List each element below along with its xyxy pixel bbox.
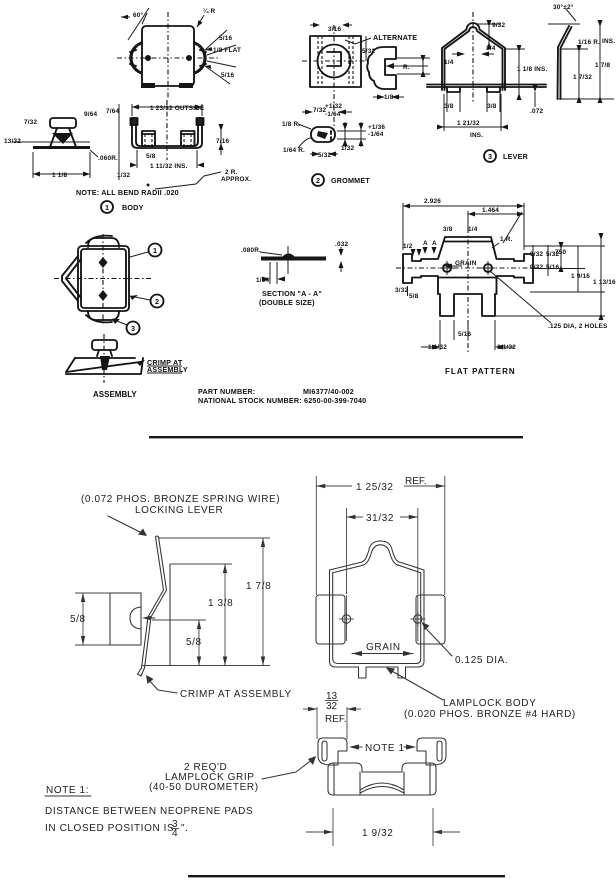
svg-text:5/8: 5/8 (409, 293, 419, 300)
svg-text:2: 2 (316, 176, 320, 185)
dim 1 9/32 (332, 808, 334, 846)
svg-text:32: 32 (326, 701, 338, 712)
dim 31/32 (346, 508, 348, 594)
svg-text:9/32: 9/32 (530, 251, 543, 258)
svg-text:13/32: 13/32 (4, 138, 21, 145)
svg-text:1/16 R.: 1/16 R. (578, 39, 600, 46)
svg-text:1/2: 1/2 (403, 243, 413, 250)
separator line 2 (188, 875, 505, 877)
svg-text:1 3/8: 1 3/8 (208, 598, 233, 609)
svg-text:1/8 R.: 1/8 R. (282, 121, 300, 128)
lever front : right dim 1 1/8 INS (505, 48, 525, 50)
flat pattern : outline (403, 237, 533, 316)
assembly top view : centerlines (54, 278, 152, 280)
body front view : outside dim (131, 104, 133, 116)
svg-text:NOTE 1: NOTE 1 (365, 743, 405, 754)
svg-text:(40-50 DUROMETER): (40-50 DUROMETER) (149, 782, 259, 793)
svg-text:.032: .032 (335, 241, 348, 248)
svg-text:(0.072 PHOS. BRONZE SPRING WIR: (0.072 PHOS. BRONZE SPRING WIRE) (81, 494, 280, 505)
svg-text:INS.: INS. (470, 132, 483, 139)
body top view : outline (142, 26, 194, 86)
body top view : right wing (193, 41, 207, 75)
assembly top view : top wing tab (88, 238, 119, 247)
body bottom with feet (330, 661, 425, 678)
svg-text:CRIMP AT ASSEMBLY: CRIMP AT ASSEMBLY (180, 689, 292, 700)
svg-text:60°: 60° (133, 11, 144, 19)
svg-text:(DOUBLE SIZE): (DOUBLE SIZE) (259, 298, 315, 307)
body front view : left flange (132, 119, 202, 148)
grommet side profile (367, 47, 396, 89)
body edge line (169, 564, 171, 666)
svg-text:31/32: 31/32 (366, 513, 394, 524)
assembly top view : diamonds (99, 257, 108, 268)
assembly balloons (149, 244, 162, 257)
flat pattern : centerlines (467, 228, 469, 352)
svg-text:7/32: 7/32 (24, 119, 37, 126)
svg-text:3: 3 (131, 324, 135, 333)
svg-text:+1/36: +1/36 (368, 124, 385, 131)
left grip hook (318, 738, 347, 765)
svg-text:(0.020 PHOS. BRONZE #4 HARD): (0.020 PHOS. BRONZE #4 HARD) (404, 709, 576, 720)
balloon 1 body (101, 201, 113, 213)
lever side view (558, 26, 570, 99)
body front view : grommet blocks (142, 131, 155, 146)
svg-text:7/16: 7/16 (216, 138, 229, 145)
svg-text:5/16: 5/16 (221, 72, 234, 79)
svg-text:NOTE: ALL BEND RADII .020: NOTE: ALL BEND RADII .020 (76, 188, 179, 197)
svg-text:1/4: 1/4 (444, 59, 454, 66)
svg-text:1/8: 1/8 (384, 94, 394, 101)
svg-text:3/8: 3/8 (487, 103, 497, 110)
flat pattern : right overall dims (524, 245, 605, 247)
svg-text:-1/64: -1/64 (368, 131, 384, 138)
right wing (416, 595, 445, 644)
svg-text:ASSEMBLY: ASSEMBLY (93, 390, 137, 399)
svg-text:1 13/16: 1 13/16 (593, 279, 616, 286)
svg-text:3/16: 3/16 (328, 26, 341, 33)
svg-text:9/32: 9/32 (530, 264, 543, 271)
svg-text:BODY: BODY (122, 203, 144, 212)
svg-text:DISTANCE BETWEEN NEOPRENE PADS: DISTANCE BETWEEN NEOPRENE PADS (45, 806, 253, 817)
body front view : centerline (166, 100, 168, 160)
lever front : bottom bar (427, 84, 546, 86)
svg-text:NOTE 1:: NOTE 1: (46, 785, 89, 796)
lever front : centerline (472, 12, 474, 102)
svg-text:2.926: 2.926 (424, 198, 441, 205)
dim 1 3/8 (224, 564, 226, 666)
extension lines (158, 537, 270, 539)
svg-text:".: ". (181, 823, 189, 834)
svg-text:30°±2°: 30°±2° (553, 3, 574, 11)
svg-text:1 7/32: 1 7/32 (573, 74, 592, 81)
svg-text:FLAT PATTERN: FLAT PATTERN (445, 367, 516, 376)
svg-text:ALTERNATE: ALTERNATE (373, 33, 417, 42)
svg-text:3: 3 (488, 152, 492, 161)
svg-text:1/4: 1/4 (468, 226, 478, 233)
svg-text:3/8: 3/8 (444, 103, 454, 110)
crimp label (136, 360, 145, 366)
svg-text:1 9/32: 1 9/32 (362, 828, 393, 839)
body top view : bottom pads (141, 83, 155, 88)
svg-text:1/32: 1/32 (341, 145, 354, 152)
grip clamp body (328, 763, 436, 795)
svg-text:2 R.: 2 R. (225, 169, 238, 176)
flat pattern : top dims (402, 203, 404, 250)
svg-text:5/16: 5/16 (458, 331, 471, 338)
lamplock body label (390, 670, 443, 700)
balloon 2 grommet (312, 174, 324, 186)
svg-text:1 25/32: 1 25/32 (356, 482, 394, 493)
svg-text:1: 1 (153, 246, 157, 255)
svg-text:2: 2 (155, 297, 159, 306)
svg-text:R.: R. (403, 64, 410, 71)
lamplock body outline (330, 541, 425, 661)
body top view : centerlines (117, 57, 219, 59)
svg-text:.060R.: .060R. (98, 155, 118, 162)
svg-text:9/64: 9/64 (84, 111, 97, 118)
svg-text:1 11/32 INS.: 1 11/32 INS. (150, 163, 188, 170)
svg-text:NATIONAL STOCK NUMBER: 6250-00: NATIONAL STOCK NUMBER: 6250-00-399-7040 (198, 396, 366, 405)
lever front : bottom dim 1 21/32 INS (443, 94, 445, 131)
svg-text:3/8: 3/8 (443, 226, 453, 233)
svg-text:INS.: INS. (602, 38, 615, 45)
assembly top view : bottom wing tab (88, 311, 119, 320)
svg-text:GRAIN: GRAIN (366, 642, 401, 653)
svg-text:.125 DIA, 2 HOLES: .125 DIA, 2 HOLES (548, 323, 608, 330)
svg-text:APPROX.: APPROX. (221, 176, 251, 183)
dim 1 7/8 (262, 538, 264, 666)
svg-text:A: A (423, 240, 428, 247)
grommet bottom view : oval (311, 127, 335, 142)
svg-text:1 21/32: 1 21/32 (457, 120, 480, 127)
svg-text:LAMPLOCK BODY: LAMPLOCK BODY (443, 698, 536, 709)
locking lever wire (142, 537, 164, 668)
grommet side : R arrow (397, 57, 430, 59)
body side view : cap (50, 118, 76, 128)
svg-text:9/32: 9/32 (492, 22, 505, 29)
svg-text:A: A (432, 240, 437, 247)
holes (342, 615, 350, 623)
svg-text:1 9/16: 1 9/16 (571, 273, 590, 280)
grip leader (262, 759, 313, 779)
svg-text:¼ R: ¼ R (203, 7, 216, 15)
flat pattern : hole leader (490, 271, 551, 323)
svg-text:7/64: 7/64 (106, 108, 119, 115)
svg-text:REF.: REF. (325, 714, 347, 725)
body side view : base strip (33, 146, 90, 149)
dim 5/8 left (75, 592, 110, 594)
svg-text:5/32: 5/32 (318, 152, 331, 159)
svg-text:SECTION "A - A": SECTION "A - A" (262, 289, 322, 298)
svg-text:GROMMET: GROMMET (331, 176, 370, 185)
svg-text:+1/32: +1/32 (325, 103, 342, 110)
svg-text:4: 4 (172, 828, 178, 839)
dim 1 25/32 REF (315, 476, 317, 595)
svg-text:1/64 R.: 1/64 R. (283, 147, 305, 154)
assembly top view : body square (78, 246, 129, 311)
svg-text:LOCKING LEVER: LOCKING LEVER (135, 505, 223, 516)
leader to lever top (108, 516, 146, 535)
svg-text:REF.: REF. (405, 476, 427, 487)
svg-text:5/8: 5/8 (146, 153, 156, 160)
svg-text:MI6377/40-002: MI6377/40-002 (303, 387, 354, 396)
flat pattern : holes (443, 264, 451, 272)
svg-text:LEVER: LEVER (503, 152, 529, 161)
assembly top view : lever point (62, 256, 78, 301)
left wing (316, 595, 345, 644)
svg-text:1/32: 1/32 (117, 172, 130, 179)
svg-text:1 7/8: 1 7/8 (595, 62, 610, 69)
svg-text:1 7/8: 1 7/8 (246, 581, 271, 592)
svg-text:1 23/32 OUTSIDE: 1 23/32 OUTSIDE (150, 105, 205, 112)
svg-text:IN CLOSED POSITION IS: IN CLOSED POSITION IS (45, 823, 174, 834)
0.125 DIA label (426, 628, 453, 656)
body top view : rivet dots (145, 55, 151, 61)
grip block rect (110, 593, 141, 645)
svg-text:1 1/8: 1 1/8 (52, 172, 67, 179)
svg-text:0.125 DIA.: 0.125 DIA. (455, 655, 508, 666)
svg-text:1.464: 1.464 (482, 207, 499, 214)
svg-text:1: 1 (105, 203, 109, 212)
svg-text:5/8: 5/8 (70, 614, 86, 625)
body side view : stem (50, 128, 76, 147)
svg-text:1 1/8 INS.: 1 1/8 INS. (517, 66, 547, 73)
svg-text:.072: .072 (530, 108, 543, 115)
lever front view : outline (442, 23, 505, 90)
lever front : feet (447, 87, 500, 92)
right grip hook (417, 738, 446, 765)
ext lines over wings (346, 595, 348, 641)
crimp at assembly label (148, 679, 177, 693)
separator line 1 (149, 436, 523, 438)
svg-text:5/8: 5/8 (186, 637, 202, 648)
svg-text:.750: .750 (553, 249, 566, 256)
grommet front view : square (310, 36, 361, 87)
dim 5/8 right (198, 620, 200, 666)
svg-text:PART NUMBER:: PART NUMBER: (198, 387, 255, 396)
body front view : R approx leader (155, 172, 221, 189)
body top view : left wing (129, 41, 143, 75)
assembly side view (92, 340, 117, 350)
svg-text:3/32: 3/32 (395, 287, 408, 294)
balloon 3 lever (484, 150, 496, 162)
svg-text:.080R.: .080R. (241, 247, 261, 254)
